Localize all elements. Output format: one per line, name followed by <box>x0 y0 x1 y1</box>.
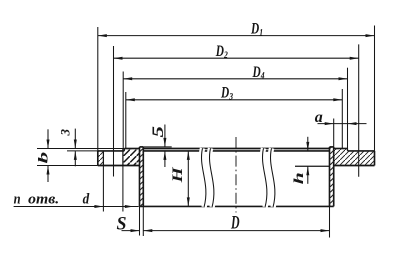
leader line n otv. d <box>14 206 139 208</box>
svg-text:D1: D1 <box>250 21 263 39</box>
leader arrows <box>94 205 133 208</box>
bolt hole extension lines below flange <box>103 166 123 212</box>
flange plate right edge <box>374 151 376 166</box>
pipe bottom end face <box>140 205 334 207</box>
raised ring step edge (left) <box>123 149 125 151</box>
label D3 <box>220 85 233 103</box>
dimension h arrows <box>306 137 309 184</box>
svg-text:D: D <box>230 212 239 233</box>
pipe outer wall right <box>333 147 335 207</box>
label H <box>170 166 186 183</box>
label b <box>36 151 51 163</box>
svg-text:D4: D4 <box>252 64 265 82</box>
centerline <box>235 137 237 213</box>
dimension 3 lower extension line <box>67 150 98 152</box>
svg-text:a: a <box>315 109 323 126</box>
svg-text:5: 5 <box>150 126 167 138</box>
hatch pipe wall right <box>330 147 334 207</box>
label D <box>230 212 239 233</box>
dimension D3 extension lines <box>126 89 342 149</box>
hatch flange left outer block <box>98 151 104 166</box>
bolt hole left wall <box>102 151 104 166</box>
flange plate left edge <box>97 151 99 166</box>
label S <box>117 214 127 234</box>
hatch flange left inner block <box>123 149 140 166</box>
dimension b upper extension / ring-top extension line <box>37 148 124 150</box>
svg-text:b: b <box>36 151 51 163</box>
dimension a line with outside arrows <box>318 122 367 125</box>
svg-text:d: d <box>83 192 90 208</box>
pipe rim top (right wall) <box>330 146 334 148</box>
dimension a extension line <box>333 119 335 147</box>
dimension H line with arrows <box>187 151 190 207</box>
svg-text:D2: D2 <box>215 43 228 61</box>
pipe inner wall left <box>142 147 144 207</box>
dimension D2 extension lines <box>114 44 359 176</box>
dimension D4 extension lines <box>123 68 347 149</box>
flange plate bottom surface <box>98 165 375 167</box>
bore far-side edge at ring level <box>143 148 329 150</box>
label D4 <box>252 64 265 82</box>
label n otv. d <box>14 192 90 208</box>
break line pair right <box>262 148 274 207</box>
svg-text:отв.: отв. <box>28 192 59 208</box>
label 5 <box>150 126 167 138</box>
svg-text:S: S <box>117 214 127 234</box>
bore far-side edge at plate level <box>143 150 329 152</box>
dimension 5 extension line (pipe top) <box>143 146 171 148</box>
dimension D1 line with arrows <box>98 34 375 37</box>
D extension lines <box>143 206 329 237</box>
raised ring top surface (left) <box>124 148 139 150</box>
dimension 3 arrows <box>74 129 77 167</box>
dimension D2 line with arrows <box>114 57 359 60</box>
dimension 5 arrows <box>163 125 166 168</box>
label h <box>291 172 306 184</box>
label a <box>315 109 323 126</box>
label D2 <box>215 43 228 61</box>
hatch flange right block <box>334 149 375 166</box>
dimension D4 line with arrows <box>123 77 347 80</box>
flange plate top surface line (left) <box>98 150 125 152</box>
flange plate top surface line (right) <box>348 150 375 152</box>
dimension D1 extension lines <box>98 26 375 151</box>
dimension b arrows <box>47 129 50 182</box>
dimension S tail and arrow <box>122 229 140 232</box>
pipe rim top (left wall) <box>140 146 144 148</box>
socket depth line (h seat) <box>295 165 330 167</box>
dimension b lower extension line <box>37 165 98 167</box>
hatch pipe wall left <box>140 147 144 207</box>
bolt hole right wall <box>122 149 124 166</box>
svg-text:n: n <box>14 192 21 208</box>
pipe inner wall right <box>329 147 331 207</box>
label 3 <box>57 129 72 137</box>
svg-text:H: H <box>170 166 186 183</box>
label D1 <box>250 21 263 39</box>
raised ring step edge (right) <box>347 149 349 151</box>
break line pair left <box>201 148 213 207</box>
S extension line <box>139 206 141 235</box>
svg-text:D3: D3 <box>220 85 233 103</box>
raised ring top surface (right) <box>334 148 348 150</box>
svg-text:3: 3 <box>57 129 72 137</box>
pipe outer wall left <box>139 147 141 207</box>
dimension D3 line with arrows <box>126 98 342 101</box>
svg-text:h: h <box>291 172 306 184</box>
dimension D line with arrows <box>143 229 329 232</box>
